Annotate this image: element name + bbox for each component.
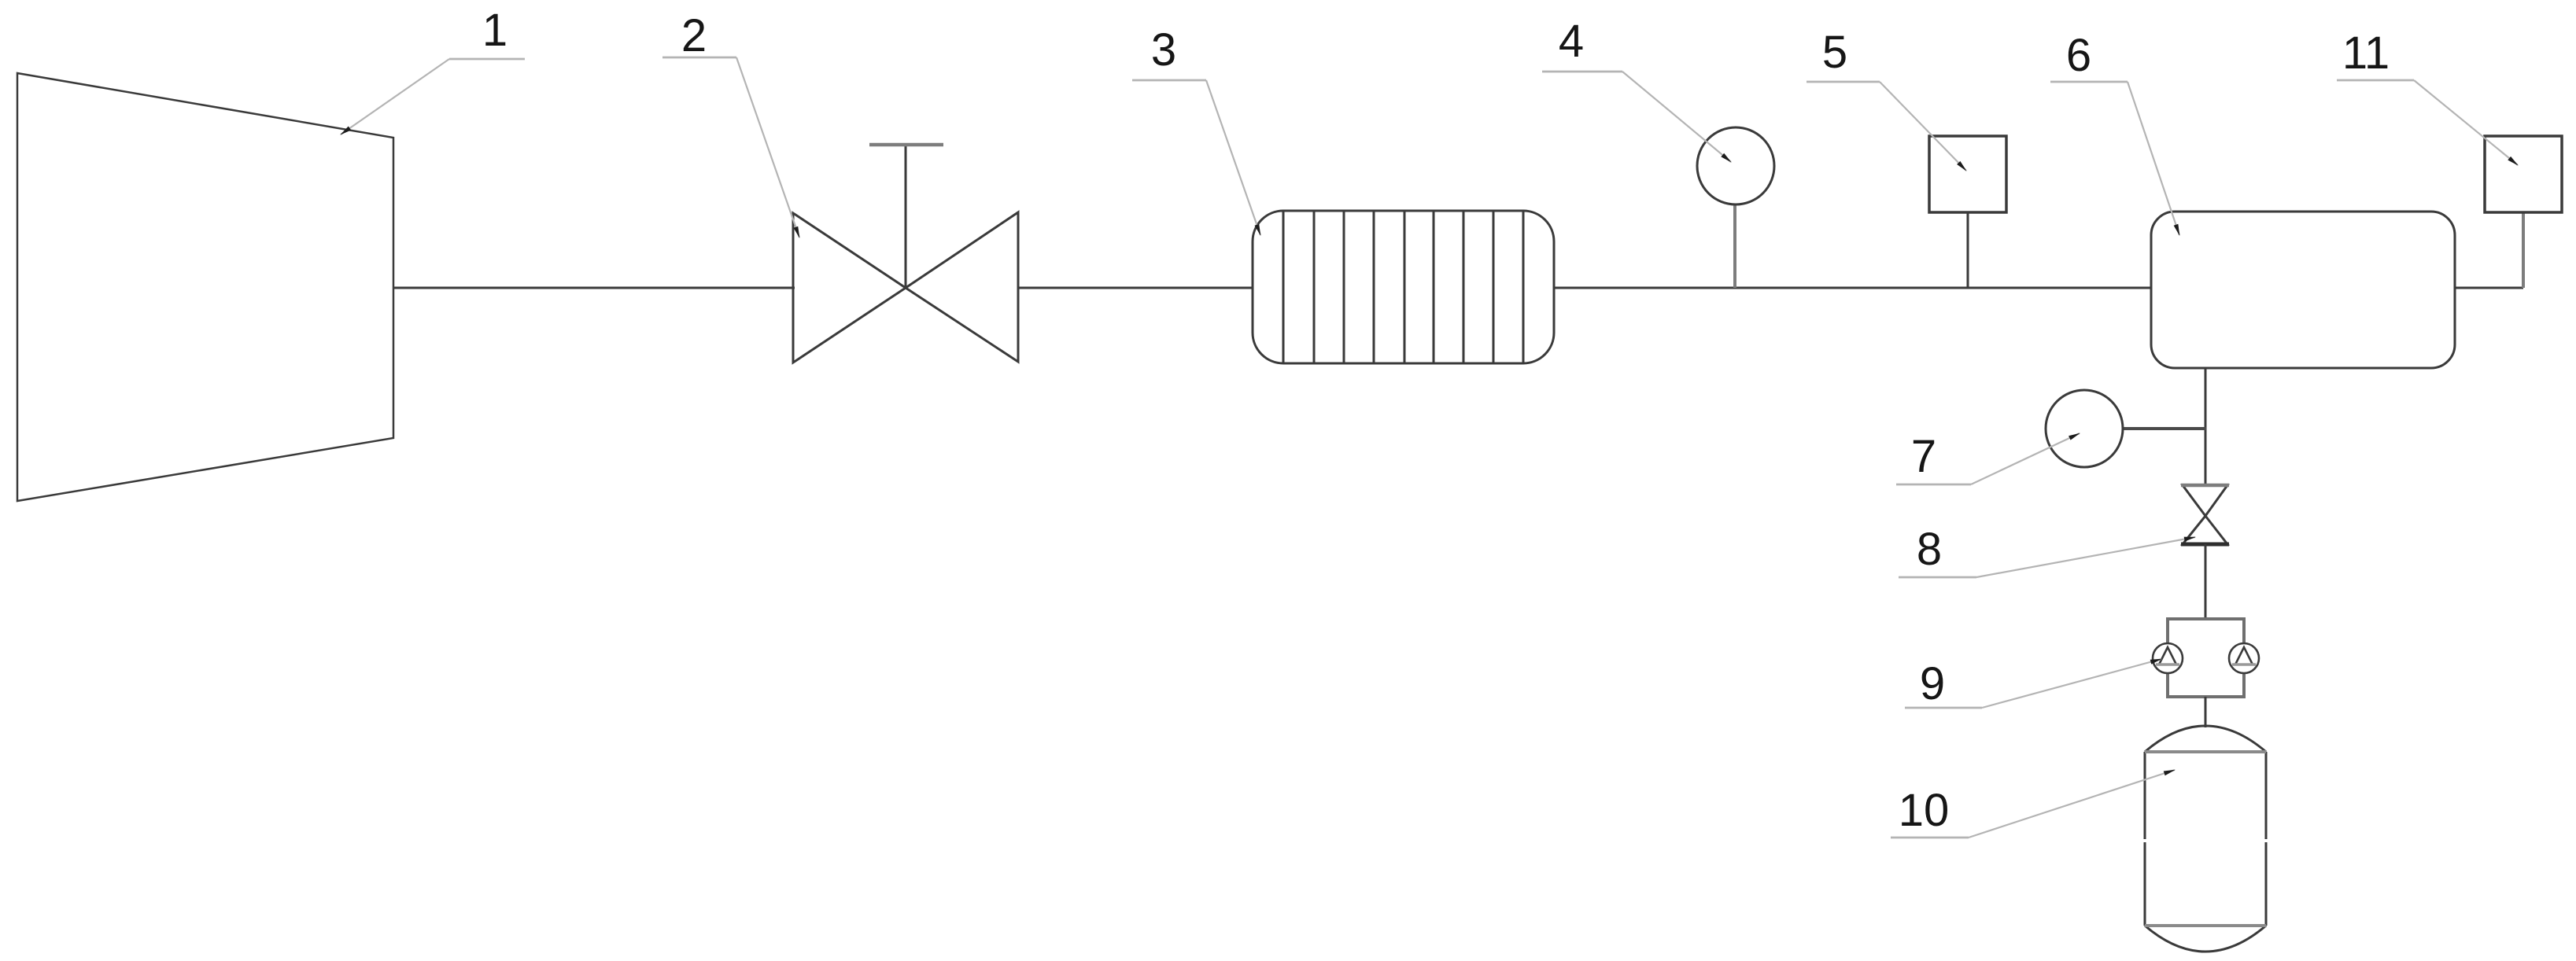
- valve 2: [793, 145, 1018, 363]
- label 3 leader: [1132, 79, 1206, 82]
- svg-text:7: 7: [1911, 431, 1936, 482]
- gauge 4: [1697, 127, 1774, 204]
- svg-text:2: 2: [681, 10, 707, 61]
- valve 8: [2181, 485, 2229, 544]
- label 8 leader: [1899, 576, 1976, 579]
- label 4 leader: [1542, 71, 1622, 73]
- gauge 7: [2046, 390, 2123, 467]
- wire drop from tank 6: [2205, 368, 2207, 486]
- heat exchanger 3: [1253, 211, 1554, 363]
- svg-text:10: 10: [1899, 785, 1950, 836]
- label 9 leader: [1905, 707, 1982, 709]
- label 1 leader: [449, 58, 525, 61]
- svg-text:6: 6: [2066, 30, 2091, 81]
- svg-text:1: 1: [482, 5, 507, 56]
- sensor box 11 stem: [2522, 212, 2525, 288]
- wire pipe 3-6: [1554, 287, 2151, 289]
- tank 6: [2151, 212, 2455, 368]
- label 5 leader: [1807, 81, 1880, 83]
- svg-text:4: 4: [1559, 16, 1584, 67]
- wire pipe 6-11: [2455, 287, 2523, 289]
- cylinder 10 weld lines: [2145, 750, 2266, 753]
- wire pipe 1-2: [393, 287, 795, 289]
- svg-text:8: 8: [1917, 524, 1942, 575]
- label 6 leader: [2050, 81, 2128, 83]
- label 10 leader: [1891, 837, 1969, 839]
- cylinder 10: [2145, 726, 2266, 952]
- wire gauge 7 connector: [2123, 427, 2206, 430]
- meter 9 left rotor: [2153, 643, 2183, 673]
- label 7 leader: [1896, 484, 1971, 486]
- wire pipe 2-3: [1018, 287, 1253, 289]
- svg-text:9: 9: [1920, 658, 1945, 709]
- sensor box 5 stem: [1967, 212, 1969, 288]
- wire valve8 to meter 9: [2205, 544, 2207, 621]
- label 11 leader: [2337, 79, 2414, 82]
- meter 9 right rotor: [2229, 643, 2259, 673]
- wire meter 9 to cylinder 10: [2205, 697, 2207, 727]
- gauge 4 stem: [1733, 204, 1736, 288]
- svg-text:5: 5: [1822, 27, 1847, 78]
- label 2 leader: [662, 57, 736, 59]
- svg-text:3: 3: [1151, 24, 1176, 75]
- meter block 9: [2168, 619, 2244, 697]
- sensor box 5: [1929, 136, 2006, 212]
- sensor box 11: [2485, 136, 2562, 212]
- turbine housing 1: [17, 73, 393, 501]
- cylinder 10 seam gap: [2139, 839, 2272, 842]
- valve 2 handle bar: [869, 143, 943, 147]
- svg-text:11: 11: [2342, 28, 2390, 79]
